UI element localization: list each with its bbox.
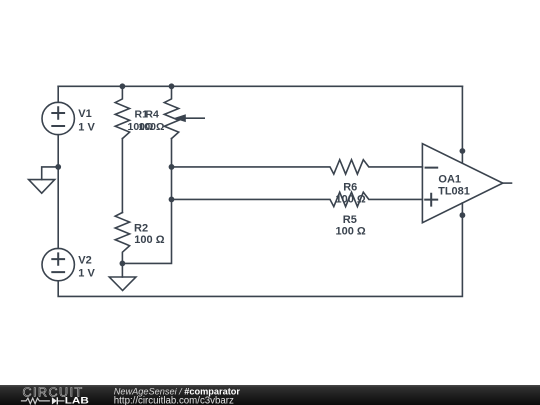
op-amp OA1 [422, 144, 502, 223]
wire node A to ground [42, 167, 59, 180]
svg-text:100Ω: 100Ω [139, 121, 165, 133]
node rail-R1 [120, 83, 126, 89]
ground G1 [29, 180, 55, 194]
node op-amp V- pin [460, 212, 466, 218]
footer bar [0, 385, 540, 405]
svg-text:R4: R4 [145, 109, 159, 121]
node R4-R5 [169, 197, 175, 203]
voltage source V1 [42, 102, 74, 134]
svg-text:100 Ω: 100 Ω [134, 234, 164, 246]
node R4-R6 [169, 164, 175, 170]
wire R1 to R2 [121, 139, 123, 213]
node A [55, 164, 61, 170]
svg-text:R6: R6 [343, 182, 357, 194]
wire V1 bottom to node A [57, 135, 59, 167]
svg-text:TL081: TL081 [438, 185, 470, 197]
logo diode [52, 397, 57, 404]
wire op-amp V+ [461, 86, 463, 163]
svg-text:100 Ω: 100 Ω [336, 225, 366, 237]
wire R2 bottom to ground [121, 263, 123, 277]
resistor R6 [172, 160, 423, 174]
rheostat R4 arrow [185, 117, 204, 119]
resistor R5 [172, 192, 423, 206]
svg-text:R2: R2 [134, 222, 148, 234]
wire V2 bottom rail [58, 203, 462, 296]
wire R4 bottom to node B [122, 139, 171, 264]
svg-text:V2: V2 [78, 254, 91, 266]
svg-text:OA1: OA1 [438, 174, 461, 186]
voltage source V2 [42, 248, 74, 280]
node rail-R4 [169, 83, 175, 89]
resistor R1 [115, 86, 129, 138]
node op-amp V+ pin [460, 148, 466, 154]
svg-text:LAB: LAB [65, 395, 89, 405]
node R2 bottom [120, 261, 126, 267]
rheostat R4 [164, 86, 178, 138]
ground G2 [109, 277, 136, 291]
wire op-amp output [503, 182, 512, 184]
svg-text:1 V: 1 V [78, 268, 95, 280]
svg-text:V1: V1 [78, 108, 91, 120]
svg-text:R5: R5 [343, 214, 357, 226]
resistor R2 [115, 213, 129, 264]
svg-text:1 V: 1 V [78, 121, 95, 133]
logo resistor [21, 398, 50, 404]
wire top rail [58, 85, 462, 87]
wire left drop to V1 [57, 86, 59, 102]
svg-text:http://circuitlab.com/c3vbarz: http://circuitlab.com/c3vbarz [114, 396, 234, 405]
wire node A to V2 [57, 167, 59, 249]
svg-text:100 Ω: 100 Ω [336, 193, 366, 205]
